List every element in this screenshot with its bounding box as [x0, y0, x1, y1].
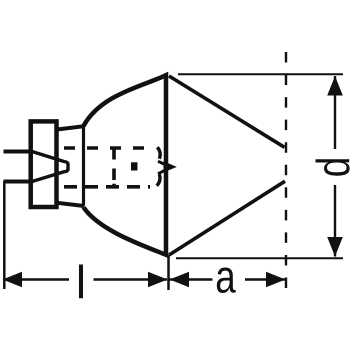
svg-text:l: l: [76, 256, 86, 308]
extension line top (d upper): [178, 73, 343, 75]
svg-text:a: a: [215, 250, 236, 302]
neck top edge: [57, 126, 84, 129]
dimension line a: [170, 278, 213, 280]
arrow d bottom: [327, 237, 343, 257]
pin bottom: [4, 180, 34, 184]
extension line bottom (d lower / a): [176, 257, 343, 259]
capsule dashed bottom line: [64, 185, 150, 189]
capsule dome dashed lower arc: [157, 174, 160, 186]
capsule dashed top line: [64, 146, 150, 150]
pin top: [4, 150, 34, 154]
arrow l left: [3, 272, 23, 288]
pinch wedge (pins converging inside base): [32, 152, 68, 182]
capsule dome dashed upper arc: [157, 147, 160, 159]
reflector back seam: [82, 126, 85, 206]
light cone lower edge: [169, 181, 285, 255]
light cone upper edge: [169, 76, 285, 147]
dimension line d: [334, 76, 336, 149]
capsule dashed left edge: [112, 147, 116, 187]
base rectangle: [31, 121, 57, 207]
neck bottom edge: [57, 203, 84, 206]
svg-text:d: d: [307, 157, 350, 177]
focal plane dashed line: [285, 52, 287, 288]
arrow a left: [170, 272, 190, 288]
dimension line l: [5, 278, 69, 280]
reflector outline (top curve, rim face, bottom curve): [84, 75, 167, 255]
arrow a right: [266, 272, 286, 288]
arrow l right: [148, 272, 168, 288]
filament square: [131, 162, 138, 170]
extension line left (l): [3, 181, 6, 289]
capsule tip lower wing: [158, 170, 165, 174]
capsule tip through rim: [164, 161, 177, 172]
capsule tip upper wing: [158, 161, 165, 164]
extension line middle (l/a shared at rim): [167, 255, 170, 290]
arrow d top: [327, 76, 343, 96]
